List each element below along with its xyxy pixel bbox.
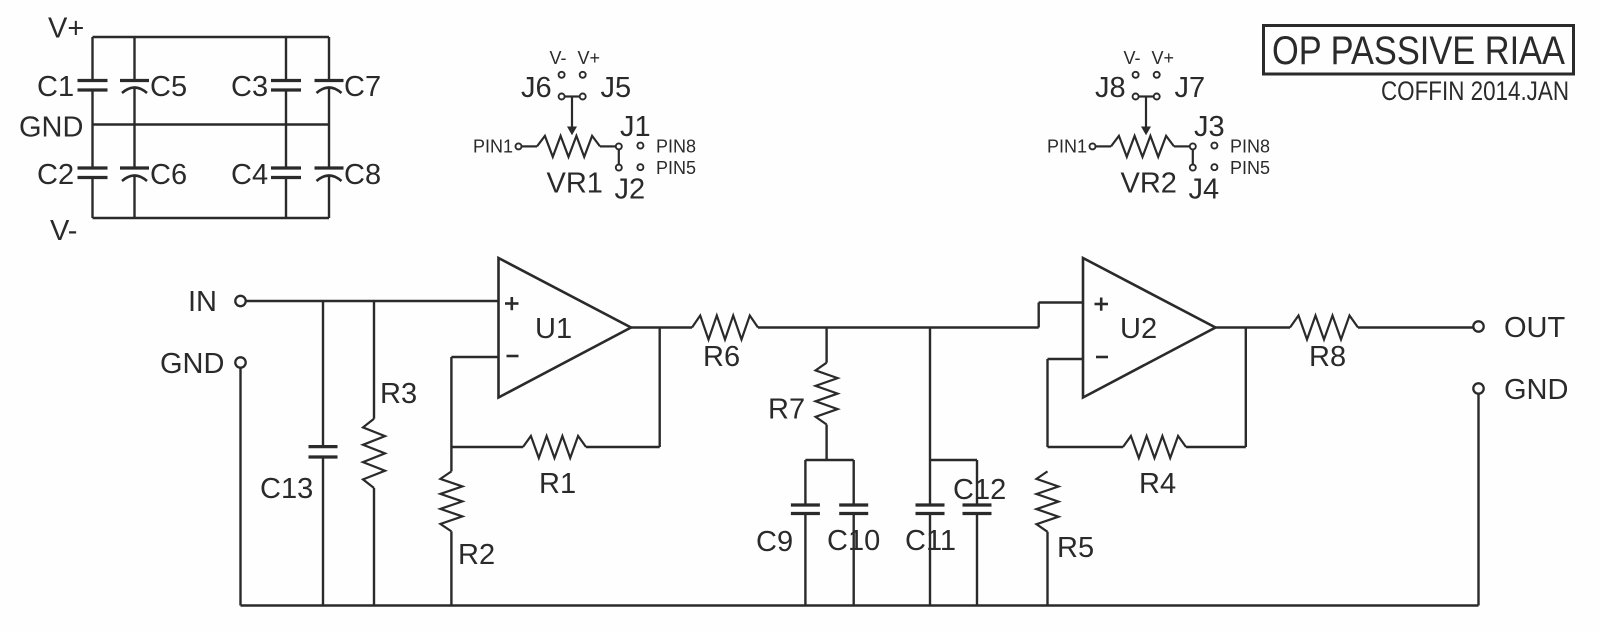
wire PIN1 to VR2 body [1096, 145, 1112, 147]
wire R1 to output tap [586, 446, 660, 448]
resistor R4 [1123, 436, 1186, 458]
svg-text:J2: J2 [615, 174, 646, 206]
svg-text:U1: U1 [535, 313, 572, 345]
svg-text:PIN8: PIN8 [1230, 137, 1270, 157]
capacitor C6 (polarized) [120, 166, 149, 169]
wiper arrowhead of VR1 [567, 127, 577, 136]
wire R5 to ground rail [1046, 532, 1048, 606]
jumper J8 pad 1 [1133, 72, 1139, 78]
capacitor C12 [963, 503, 992, 506]
wire feedback node to R1 [451, 446, 523, 448]
potentiometer VR2 body [1111, 136, 1174, 157]
svg-text:C4: C4 [231, 159, 268, 191]
jumper J6 pad 2 [559, 94, 565, 100]
wire output GND down to ground rail [1477, 394, 1479, 606]
capacitor C13 [309, 445, 338, 448]
svg-text:IN: IN [188, 286, 217, 318]
wire left column segments [91, 37, 93, 81]
svg-text:OUT: OUT [1504, 312, 1566, 344]
U1 minus symbol [507, 355, 519, 358]
resistor R3 [363, 419, 385, 488]
svg-text:VR2: VR2 [1121, 168, 1177, 200]
jumper J3 pad (on wire) [1190, 143, 1196, 149]
wire wiper T-bar of VR1 [565, 95, 580, 97]
wire input GND down to ground rail [239, 368, 241, 606]
jumper J7 pad 1 [1154, 72, 1160, 78]
wire inverting node down to feedback [450, 357, 452, 447]
wire R6 to U2 stage [758, 326, 1039, 328]
svg-text:C8: C8 [344, 159, 381, 191]
wire R7 to C9/C10 bus [825, 425, 827, 461]
resistor R8 [1290, 316, 1358, 340]
wire right column segments [328, 37, 330, 81]
wire VR2 body to J3 [1174, 145, 1190, 147]
svg-text:PIN1: PIN1 [473, 137, 513, 157]
svg-text:R7: R7 [768, 394, 805, 426]
capacitor C5 (polarized) [120, 79, 149, 82]
wire bus to C10 [853, 460, 855, 505]
resistor R5 [1037, 471, 1059, 531]
wire C13 to ground rail [322, 457, 324, 606]
wire wiper T-bar of VR2 [1139, 95, 1154, 97]
svg-text:R3: R3 [380, 378, 417, 410]
wire C11 to ground rail [929, 514, 931, 606]
capacitor C1 [78, 79, 108, 82]
wire output tap down [659, 328, 661, 448]
svg-text:C11: C11 [905, 525, 956, 557]
wire U2 inverting node down [1046, 359, 1048, 447]
wire C11/C12 top bus [930, 459, 977, 461]
svg-text:C7: C7 [344, 71, 381, 103]
U2 minus symbol [1096, 356, 1108, 359]
svg-text:PIN8: PIN8 [656, 137, 696, 157]
svg-text:R2: R2 [458, 539, 495, 571]
capacitor C4 [271, 166, 301, 169]
wire bus to C12 [976, 460, 978, 505]
wire IN node to C13 [322, 301, 324, 447]
wire node to R7 [825, 328, 827, 363]
svg-text:C6: C6 [150, 159, 187, 191]
svg-text:V+: V+ [1152, 48, 1175, 68]
svg-text:J6: J6 [521, 72, 552, 104]
jumper J6 pad 1 [559, 72, 565, 78]
wire bus to C9 [804, 460, 806, 505]
jumper J8 pad 2 [1133, 94, 1139, 100]
wire C10 to ground rail [853, 514, 855, 606]
wire R4 to output tap [1186, 446, 1246, 448]
svg-text:J1: J1 [620, 111, 651, 143]
wire IN node to R3 [373, 301, 375, 419]
svg-text:V-: V- [1124, 48, 1141, 68]
pad PIN5 (VR1) [637, 164, 643, 170]
svg-text:V-: V- [550, 48, 567, 68]
resistor R6 [692, 316, 758, 340]
svg-text:COFFIN 2014.JAN: COFFIN 2014.JAN [1381, 76, 1569, 106]
svg-text:C10: C10 [827, 525, 880, 557]
svg-text:J3: J3 [1194, 111, 1225, 143]
terminal PIN1 of VR1 [516, 143, 522, 149]
pad PIN5 (VR2) [1211, 164, 1217, 170]
svg-text:GND: GND [1504, 374, 1568, 406]
jumper J1 pad (on wire) [616, 143, 622, 149]
capacitor C9 [791, 503, 820, 506]
U2 plus symbol [1095, 303, 1109, 306]
wire V+ rail [93, 36, 330, 38]
terminal OUT [1473, 321, 1483, 331]
terminal IN [235, 296, 245, 306]
svg-text:V+: V+ [578, 48, 601, 68]
wire V- rail [93, 217, 330, 219]
wire feedback node to R2 [450, 447, 452, 471]
capacitor C7 (polarized) [315, 79, 344, 82]
wire VR1 body to J1 [600, 145, 616, 147]
wire U1 inverting input [451, 356, 498, 358]
capacitor C2 [78, 166, 108, 169]
capacitor C8 (polarized) [315, 166, 344, 169]
resistor R2 [440, 471, 462, 531]
jumper J5 pad 2 [580, 94, 586, 100]
svg-text:C13: C13 [260, 473, 313, 505]
svg-text:R5: R5 [1057, 532, 1094, 564]
wire R3 to ground rail [373, 488, 375, 606]
terminal GND (input) [235, 357, 245, 367]
wire GND rail [93, 123, 330, 125]
svg-text:R6: R6 [703, 341, 740, 373]
wire feedback node to R4 [1048, 446, 1124, 448]
wire J1 to J2 [618, 149, 620, 164]
wire U1 output [631, 326, 692, 328]
jumper J5 pad 1 [580, 72, 586, 78]
wire second column segments [133, 37, 135, 81]
wire C12 to ground rail [976, 514, 978, 606]
wire step up to U2 noninverting input [1037, 303, 1039, 328]
wire U2 output tap down [1245, 328, 1247, 448]
title box frame [1264, 26, 1574, 75]
svg-text:OP PASSIVE RIAA: OP PASSIVE RIAA [1272, 29, 1565, 73]
op-amp U2 triangle [1083, 258, 1216, 398]
svg-text:C12: C12 [953, 474, 1006, 506]
svg-text:GND: GND [160, 348, 224, 380]
wire C9/C10 top bus [805, 459, 853, 461]
wiper arrowhead of VR2 [1141, 127, 1151, 136]
wire ground rail (bottom) [241, 604, 1479, 606]
svg-text:J5: J5 [601, 72, 632, 104]
svg-text:R4: R4 [1139, 468, 1176, 500]
svg-text:J4: J4 [1189, 174, 1220, 206]
wire U2 output [1216, 326, 1291, 328]
wire node to C11 [929, 328, 931, 506]
wire U2 inverting input [1048, 358, 1084, 360]
pad PIN8 (VR2) [1211, 143, 1217, 149]
wire IN to U1 noninverting input [246, 300, 499, 302]
svg-text:PIN5: PIN5 [656, 158, 696, 178]
svg-text:PIN5: PIN5 [1230, 158, 1270, 178]
svg-text:PIN1: PIN1 [1047, 137, 1087, 157]
svg-text:C2: C2 [37, 159, 74, 191]
svg-text:GND: GND [19, 112, 83, 144]
wire J3 to J4 [1192, 149, 1194, 164]
svg-text:C1: C1 [37, 71, 74, 103]
svg-text:VR1: VR1 [547, 168, 603, 200]
svg-text:J8: J8 [1095, 72, 1126, 104]
pad PIN8 (VR1) [637, 143, 643, 149]
svg-text:C9: C9 [756, 526, 793, 558]
terminal PIN1 of VR2 [1090, 143, 1096, 149]
jumper J4 pad [1190, 165, 1196, 171]
svg-text:V-: V- [50, 215, 77, 247]
svg-text:C3: C3 [231, 71, 268, 103]
svg-text:R8: R8 [1309, 341, 1346, 373]
terminal GND (output) [1473, 383, 1483, 393]
svg-text:R1: R1 [539, 468, 576, 500]
resistor R1 [523, 436, 586, 458]
op-amp U1 triangle [499, 258, 632, 398]
jumper J2 pad [616, 165, 622, 171]
svg-text:J7: J7 [1175, 72, 1206, 104]
svg-text:C5: C5 [150, 71, 187, 103]
wire R2 to ground rail [450, 531, 452, 605]
svg-text:U2: U2 [1120, 313, 1157, 345]
wire R8 to OUT terminal [1358, 326, 1473, 328]
U1 plus symbol [505, 302, 519, 305]
capacitor C11 [916, 503, 945, 506]
wire PIN1 to VR1 body [522, 145, 538, 147]
potentiometer VR1 body [537, 136, 600, 157]
wire third column segments [285, 37, 287, 81]
wire C9 to ground rail [804, 514, 806, 606]
svg-text:V+: V+ [48, 13, 84, 45]
capacitor C10 [839, 503, 868, 506]
capacitor C3 [271, 79, 301, 82]
jumper J7 pad 2 [1154, 94, 1160, 100]
resistor R7 [816, 363, 838, 425]
